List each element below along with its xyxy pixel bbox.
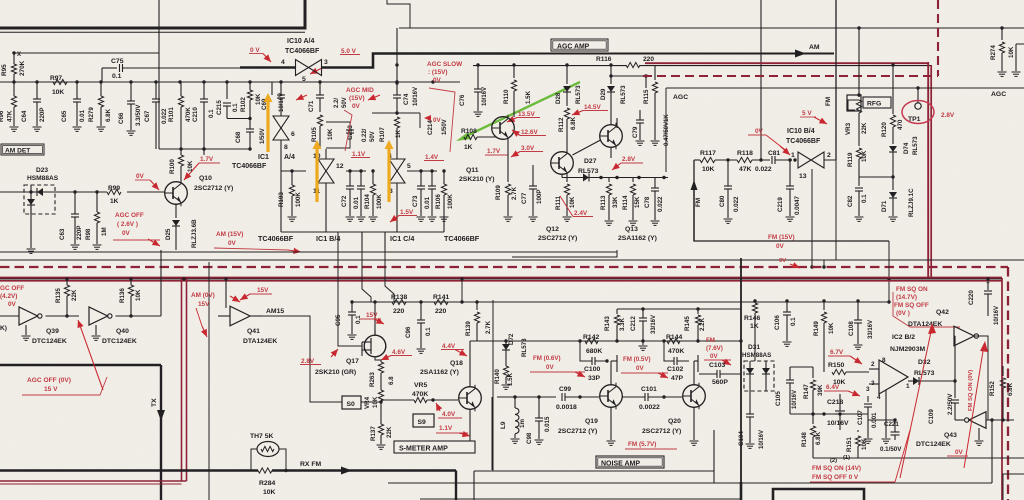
ground Q19: [610, 407, 612, 440]
wire maroon dashed top right: [643, 75, 938, 77]
op Q39 inverter: [19, 307, 38, 325]
wire thick top-left bus: [0, 0, 305, 28]
op Q43 inverter: [969, 412, 986, 429]
svg-text:6.7V: 6.7V: [830, 349, 844, 356]
svg-text:1K: 1K: [750, 323, 759, 330]
svg-text:220: 220: [643, 56, 654, 63]
svg-text:2.4V: 2.4V: [574, 210, 588, 217]
svg-text:C98: C98: [526, 432, 533, 444]
svg-text:10/16V: 10/16V: [827, 420, 849, 427]
svg-text:0.015: 0.015: [544, 416, 551, 432]
svg-text:S-METER AMP: S-METER AMP: [399, 446, 448, 453]
ground 0.01 B: [357, 216, 366, 218]
svg-text:R136: R136: [119, 288, 126, 303]
svg-text:(2): (2): [830, 458, 837, 464]
svg-text:R98: R98: [85, 228, 92, 240]
wire pin2 to x836: [824, 160, 836, 171]
svg-text:6.8K: 6.8K: [105, 108, 112, 122]
svg-text:R145: R145: [684, 316, 691, 331]
svg-text:FM (0.5V): FM (0.5V): [623, 356, 651, 363]
svg-text:FM SQ ON: FM SQ ON: [896, 286, 928, 293]
op Q40 inverter: [89, 307, 108, 325]
svg-text:(15V): (15V): [349, 95, 365, 102]
diode D27: [561, 174, 563, 178]
svg-text:10/16V: 10/16V: [792, 390, 798, 409]
svg-text:8: 8: [284, 144, 288, 151]
svg-text:R109: R109: [495, 185, 502, 200]
svg-text:2SA1162 (Y): 2SA1162 (Y): [420, 369, 459, 376]
svg-text:R112: R112: [558, 117, 565, 132]
svg-text:33/16V: 33/16V: [868, 320, 874, 339]
svg-text:IC10 B/4: IC10 B/4: [787, 128, 815, 135]
svg-text:1K: 1K: [464, 144, 473, 151]
wire Q12 links: [573, 140, 601, 155]
svg-text:(14.7V): (14.7V): [896, 294, 917, 301]
ground C106: [783, 341, 792, 343]
svg-text:0.1: 0.1: [790, 317, 797, 326]
svg-text:C108: C108: [848, 321, 855, 336]
svg-text:50V: 50V: [370, 131, 376, 142]
svg-text:1.7V: 1.7V: [200, 156, 214, 163]
ground R115: [651, 140, 660, 142]
svg-text:Q17: Q17: [346, 358, 359, 365]
ground R98: [93, 244, 102, 246]
svg-text:R274: R274: [990, 45, 997, 60]
red arrow up right B: [964, 345, 984, 468]
ground R109: [504, 216, 513, 218]
ground C95: [348, 334, 357, 336]
wire y76 link: [611, 75, 646, 77]
svg-text:12: 12: [336, 163, 344, 170]
svg-text:1K: 1K: [110, 198, 119, 205]
svg-text:( 2.6V ): ( 2.6V ): [117, 221, 138, 228]
wire AGC y88 right: [916, 86, 919, 89]
svg-text:R138: R138: [391, 294, 407, 301]
wire rail y252: [0, 251, 617, 253]
wire maroon left box vertical: [181, 279, 183, 481]
svg-text:Q42: Q42: [936, 309, 949, 316]
svg-text:10/16V: 10/16V: [279, 93, 285, 112]
wire maroon bottom left: [0, 480, 187, 482]
svg-text:RL573: RL573: [521, 338, 528, 357]
svg-text:R135: R135: [55, 288, 62, 303]
svg-text:15V: 15V: [366, 312, 378, 319]
svg-text:0.47/50V1K: 0.47/50V1K: [664, 114, 670, 146]
ground R137: [377, 444, 386, 446]
svg-text:2.8V: 2.8V: [941, 112, 955, 119]
svg-text:VR4: VR4: [364, 396, 371, 409]
svg-text:C100: C100: [584, 366, 600, 373]
svg-text:C213: C213: [347, 125, 354, 140]
svg-text:6: 6: [291, 131, 295, 138]
wire rail y65 with R116: [473, 65, 626, 67]
svg-text:TC4066BF: TC4066BF: [444, 234, 480, 243]
transistor Q18: [459, 387, 482, 410]
svg-text:TX: TX: [151, 398, 158, 407]
svg-text:0V: 0V: [136, 173, 145, 180]
svg-text:2.7K: 2.7K: [485, 320, 492, 334]
svg-text:IC10 A/4: IC10 A/4: [287, 38, 314, 45]
box thick bottom right: [773, 489, 864, 500]
svg-text:FM (0.6V): FM (0.6V): [533, 355, 561, 362]
svg-text:3: 3: [866, 386, 870, 393]
svg-text:C105: C105: [775, 391, 782, 406]
svg-text:R140: R140: [494, 369, 501, 384]
ground R104: [369, 216, 378, 218]
svg-text:DTC124EK: DTC124EK: [916, 441, 951, 448]
svg-text:D23: D23: [36, 167, 48, 174]
svg-text:Q12: Q12: [546, 226, 559, 233]
svg-text:AGC AMP: AGC AMP: [557, 43, 590, 50]
svg-text:0.0018: 0.0018: [556, 404, 577, 411]
svg-text:0V: 0V: [636, 365, 644, 372]
svg-text:R108: R108: [461, 128, 477, 135]
svg-text:2SC2712 (Y): 2SC2712 (Y): [194, 185, 233, 192]
wire maroon dashed right vertical: [1007, 267, 1009, 500]
svg-text:12.6V: 12.6V: [521, 129, 538, 136]
svg-text:10K: 10K: [1008, 46, 1015, 58]
wire y118 loop: [227, 118, 250, 120]
svg-text:R137: R137: [370, 426, 377, 441]
transistor Q10: [165, 182, 188, 205]
wire thick IC10 out: [321, 54, 520, 68]
transistor Q12b: [600, 125, 623, 148]
wire AGC box: [665, 88, 667, 172]
svg-text:FM (5.7V): FM (5.7V): [628, 441, 656, 448]
svg-text:1.5K: 1.5K: [507, 372, 514, 386]
wire IC10B feed x761: [760, 0, 762, 160]
svg-text:0V: 0V: [8, 301, 17, 308]
trimmer VR3 box: [847, 95, 861, 111]
svg-text:R114: R114: [622, 195, 629, 210]
svg-text:TC4066BF: TC4066BF: [285, 48, 320, 55]
wire R138 rail: [352, 301, 889, 303]
ground C82: [855, 216, 864, 218]
svg-text:R118: R118: [737, 150, 753, 157]
svg-text:1.5V: 1.5V: [400, 209, 414, 216]
svg-text:2SC2712 (Y): 2SC2712 (Y): [538, 235, 577, 242]
wire signal y397 left: [497, 396, 556, 398]
svg-text:0V: 0V: [228, 240, 237, 247]
wire rail y367: [790, 366, 813, 368]
svg-text:1.4V: 1.4V: [425, 154, 439, 161]
svg-text:DTA124EK: DTA124EK: [908, 321, 942, 328]
svg-text:DTC124EK: DTC124EK: [32, 338, 67, 345]
svg-text:S9: S9: [418, 419, 427, 426]
svg-text:0.22/: 0.22/: [362, 128, 368, 142]
svg-text:5.0 V: 5.0 V: [341, 48, 357, 55]
svg-text:AGC OFF: AGC OFF: [115, 212, 144, 219]
ground R113: [605, 220, 614, 222]
op Q41 inverter: [230, 306, 250, 326]
svg-text:TC4066BF: TC4066BF: [786, 138, 821, 145]
ground R103: [288, 216, 297, 218]
svg-text:AM DET: AM DET: [5, 147, 30, 154]
svg-text:C75: C75: [111, 58, 124, 65]
svg-text:RX FM: RX FM: [300, 461, 321, 468]
svg-text:D74: D74: [903, 142, 910, 154]
svg-text:1m: 1m: [519, 419, 526, 428]
svg-text:R101: R101: [168, 107, 175, 122]
svg-text:1M: 1M: [101, 227, 108, 236]
label 0V arrow C74: [424, 115, 431, 121]
svg-text:4: 4: [281, 59, 285, 66]
wire R151 on rail: [855, 436, 860, 446]
wire rail y260: [0, 259, 1024, 261]
ground C65: [73, 126, 82, 128]
svg-text:C79: C79: [632, 126, 639, 138]
svg-text:Q39: Q39: [46, 328, 59, 335]
svg-text:FM: FM: [695, 198, 702, 207]
svg-text:Q43: Q43: [944, 432, 957, 439]
wire Q19 collector: [610, 361, 612, 386]
wire pin13 down: [811, 169, 813, 267]
wire L9 box: [491, 397, 493, 470]
ground C98: [535, 439, 544, 441]
box AGC AMP label: [551, 39, 608, 51]
svg-text:AGC: AGC: [991, 91, 1006, 98]
svg-text:0V: 0V: [779, 258, 786, 264]
wire maroon double vertical right: [927, 62, 929, 279]
svg-text:C64: C64: [21, 110, 28, 122]
svg-text:RL573: RL573: [912, 136, 919, 155]
svg-text:50V: 50V: [342, 97, 348, 108]
svg-text:R102: R102: [240, 97, 247, 112]
wire rail y341: [497, 340, 741, 342]
svg-text:D72: D72: [508, 333, 515, 345]
svg-text:R284: R284: [259, 480, 275, 487]
wire AM line y53: [520, 53, 834, 55]
wire maroon dashed main: [0, 266, 1008, 268]
wire AM15 out: [296, 316, 342, 402]
svg-text:1.1V: 1.1V: [352, 151, 366, 158]
wire Q41 out: [251, 315, 263, 317]
svg-text:C72: C72: [341, 195, 348, 207]
svg-text:0.01: 0.01: [424, 196, 431, 209]
svg-text:0.022: 0.022: [755, 166, 772, 173]
svg-text:0V: 0V: [122, 230, 131, 237]
svg-text:0.1: 0.1: [112, 73, 122, 80]
box S9: [413, 414, 434, 427]
svg-text:3.0V: 3.0V: [521, 145, 535, 152]
svg-text:220P: 220P: [76, 226, 83, 240]
ground C104: [746, 443, 755, 445]
ground C66: [127, 130, 136, 132]
svg-text:2SA1162 (Y): 2SA1162 (Y): [618, 235, 657, 242]
svg-text:C67: C67: [144, 110, 151, 122]
ground C78: [651, 220, 660, 222]
svg-text:TC4066BF: TC4066BF: [258, 234, 294, 243]
wire thick TX vertical: [160, 365, 162, 500]
svg-text:470K: 470K: [412, 391, 428, 398]
wire bottom rail y232: [281, 231, 444, 233]
svg-text:Q18: Q18: [450, 360, 463, 367]
svg-text:R279: R279: [88, 107, 95, 122]
svg-text:C96: C96: [405, 326, 412, 338]
svg-text:FM SQ OFF: FM SQ OFF: [894, 302, 929, 309]
wire bottom rail y471 box: [474, 470, 493, 472]
svg-text:Q20: Q20: [668, 418, 681, 425]
svg-text:K): K): [0, 325, 7, 332]
svg-text:10K: 10K: [861, 438, 868, 450]
svg-text:AGC: AGC: [673, 94, 688, 101]
svg-text:AGC OFF (0V): AGC OFF (0V): [27, 377, 71, 384]
svg-text:3: 3: [324, 59, 328, 66]
svg-text:RLZJ3.6B: RLZJ3.6B: [191, 219, 198, 248]
svg-text:10/16V: 10/16V: [759, 430, 765, 449]
svg-text:0.022: 0.022: [161, 108, 168, 124]
svg-text:R149: R149: [813, 321, 820, 336]
op IC1 A/4 switch: [273, 116, 289, 128]
svg-text:R117: R117: [700, 150, 716, 157]
svg-text:C66: C66: [118, 112, 125, 124]
svg-text:22K: 22K: [861, 122, 868, 134]
green arrow: [462, 82, 580, 138]
transistor Q11: [492, 117, 515, 140]
svg-text:100P: 100P: [536, 190, 543, 204]
svg-text:FM SQ ON (0V): FM SQ ON (0V): [968, 370, 974, 411]
svg-text:6.8K: 6.8K: [1007, 382, 1014, 396]
svg-text:10K: 10K: [187, 160, 194, 172]
svg-text:33P: 33P: [588, 375, 601, 382]
svg-text:C77: C77: [521, 192, 528, 204]
svg-text:0.1: 0.1: [425, 327, 432, 336]
svg-text:D29: D29: [600, 88, 607, 100]
svg-text:6.8: 6.8: [388, 376, 395, 385]
wire maroon double top: [645, 62, 929, 64]
svg-text:2SK210 (Y): 2SK210 (Y): [459, 176, 495, 183]
svg-text:C80: C80: [719, 195, 726, 207]
svg-text:1.1V: 1.1V: [439, 425, 453, 432]
svg-text:(7.6V): (7.6V): [706, 345, 723, 352]
ground C77: [529, 216, 538, 218]
red arrow up right A: [900, 327, 932, 478]
svg-text:10/16V: 10/16V: [482, 87, 488, 106]
yellow arrow 1: [266, 99, 269, 152]
svg-text:C101: C101: [641, 386, 657, 393]
ground 0.01 C: [428, 216, 437, 218]
svg-text:TH7 5K: TH7 5K: [250, 433, 274, 440]
svg-text:47K: 47K: [7, 110, 14, 122]
svg-text:C103: C103: [709, 362, 725, 369]
svg-text:13: 13: [799, 173, 807, 180]
svg-text:R152: R152: [989, 381, 996, 396]
svg-text:1.5K: 1.5K: [525, 90, 532, 104]
svg-text:270K: 270K: [19, 60, 26, 76]
svg-text:22K: 22K: [386, 426, 393, 438]
wire D32 node to Q42: [954, 336, 956, 381]
svg-text:2SC2712 (Y): 2SC2712 (Y): [642, 428, 681, 435]
wire R274 partner: [1016, 43, 1024, 45]
svg-text:C63: C63: [59, 228, 66, 240]
svg-text:R119: R119: [847, 152, 854, 167]
wire R141 up: [461, 279, 463, 302]
ground D71: [889, 216, 898, 218]
svg-text:TP1: TP1: [908, 116, 921, 123]
svg-text:(0V ): (0V ): [896, 310, 910, 317]
box S0: [342, 396, 361, 409]
op Q42 inverter: [954, 326, 974, 346]
diode D25 RLZJ3.6B: [175, 204, 177, 219]
svg-text:0.0047: 0.0047: [794, 196, 801, 215]
svg-text:2SK210 (GR): 2SK210 (GR): [315, 369, 356, 376]
svg-text:R96: R96: [0, 110, 5, 122]
wire C221 link: [868, 419, 895, 421]
svg-text:15 V: 15 V: [44, 386, 58, 393]
svg-text:47K: 47K: [739, 166, 752, 173]
transistor Q19: [600, 385, 623, 408]
svg-text:15V: 15V: [257, 287, 269, 294]
svg-text:Q13: Q13: [625, 226, 638, 233]
svg-text:4.4V: 4.4V: [442, 343, 456, 350]
svg-text:C218: C218: [827, 399, 843, 406]
svg-text:IC1 C/4: IC1 C/4: [390, 234, 414, 243]
wire D31 top: [754, 341, 756, 361]
svg-text:R106: R106: [435, 194, 442, 209]
svg-text:Q11: Q11: [466, 167, 479, 174]
wire RX FM down: [455, 471, 457, 500]
svg-text:1K: 1K: [395, 130, 402, 138]
svg-text:AM (15V): AM (15V): [216, 231, 243, 238]
svg-text:NJM2903M: NJM2903M: [890, 346, 925, 353]
wire R105 box: [326, 122, 350, 148]
ground C80: [724, 218, 733, 220]
svg-text:C73: C73: [412, 195, 419, 207]
wire Q43 out: [986, 419, 1014, 421]
svg-text:15V: 15V: [198, 301, 210, 308]
wire FM feed vertical: [694, 160, 889, 241]
svg-text:C99: C99: [559, 386, 571, 393]
ground C96: [417, 348, 426, 350]
svg-text:DTC124EK: DTC124EK: [102, 338, 137, 345]
svg-text:C210: C210: [192, 107, 199, 122]
svg-text:C220: C220: [968, 290, 975, 305]
svg-text:R115: R115: [643, 89, 650, 104]
yellow arrow 2: [315, 146, 318, 202]
wire maroon right vertical solid: [1001, 278, 1003, 500]
ground R274: [998, 71, 1007, 73]
svg-text:6.4V: 6.4V: [826, 384, 840, 391]
ground Q43: [978, 428, 980, 440]
wire Q12b collector: [610, 148, 612, 159]
svg-text:R150: R150: [828, 362, 844, 369]
ground L9: [511, 438, 520, 440]
transistor Q20: [683, 385, 706, 408]
svg-text:100K: 100K: [447, 194, 454, 209]
svg-text:0V: 0V: [776, 243, 785, 250]
svg-text:0.01: 0.01: [79, 109, 86, 122]
wire C82 D71 rail: [859, 176, 893, 178]
wire black x209 vertical: [208, 262, 210, 500]
svg-text:C76: C76: [459, 94, 466, 106]
svg-text:5: 5: [302, 76, 306, 83]
svg-text:4.0V: 4.0V: [442, 411, 456, 418]
svg-text:10K: 10K: [135, 289, 142, 301]
ground opamp: [885, 398, 887, 438]
svg-text:VR5: VR5: [414, 382, 427, 389]
svg-text:100K: 100K: [295, 192, 302, 207]
svg-text:GC OFF: GC OFF: [0, 285, 24, 292]
svg-text:10/16V: 10/16V: [413, 87, 419, 106]
svg-text:R95: R95: [1, 64, 8, 76]
svg-text:560P: 560P: [712, 379, 728, 386]
svg-text:470K: 470K: [185, 107, 192, 122]
wire rail y414: [790, 413, 868, 415]
svg-text:C95: C95: [335, 314, 342, 326]
svg-text:L9: L9: [500, 421, 507, 429]
svg-text:10K: 10K: [569, 196, 576, 208]
svg-text:1: 1: [791, 152, 795, 159]
